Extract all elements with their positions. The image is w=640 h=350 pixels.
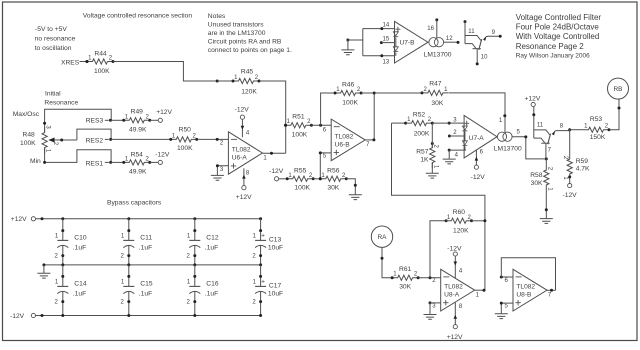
- capacitor C17: [252, 265, 283, 317]
- svg-text:200K: 200K: [414, 130, 430, 137]
- annotation: -5V to +5V no resonance to oscillation: [35, 26, 76, 52]
- svg-text:+12V: +12V: [156, 109, 172, 116]
- svg-text:30K: 30K: [399, 284, 411, 291]
- ground (R56): [349, 195, 362, 200]
- power +12V (buffer A pin 11): [525, 95, 541, 106]
- wire RES3 to R49: [111, 119, 124, 121]
- svg-text:U8-B: U8-B: [516, 292, 532, 299]
- svg-text:R46: R46: [342, 81, 355, 88]
- svg-text:120K: 120K: [453, 227, 469, 234]
- svg-text:R54: R54: [131, 151, 144, 158]
- wire R53 to RB: [609, 99, 619, 130]
- wire bypass middle rail: [44, 264, 261, 266]
- svg-text:Resonance Page 2: Resonance Page 2: [516, 42, 585, 51]
- svg-text:.1uF: .1uF: [205, 291, 218, 298]
- svg-text:Circuit points RA and RB: Circuit points RA and RB: [208, 38, 282, 45]
- transistor buffer A (pins 11 7 8): [532, 107, 569, 159]
- svg-text:RES1: RES1: [86, 161, 104, 168]
- ground (R58): [540, 219, 553, 224]
- wire U8-B pin 6 stub: [501, 276, 513, 278]
- connector RA: [371, 226, 392, 247]
- op-amp U8-B: [505, 269, 552, 311]
- svg-text:Voltage Controlled Filter: Voltage Controlled Filter: [516, 13, 602, 22]
- wire R44 to R45 node: [113, 62, 217, 82]
- svg-text:no resonance: no resonance: [35, 35, 76, 42]
- svg-text:RES2: RES2: [86, 138, 104, 145]
- svg-text:C13: C13: [269, 237, 282, 244]
- svg-text:+: +: [261, 278, 265, 285]
- wire junction to R53: [570, 129, 583, 131]
- wire -12V bottom rail: [36, 315, 261, 317]
- wire U8-A output up to R52: [392, 123, 485, 290]
- resistor R47: [422, 80, 448, 107]
- transistor buffer B (pins 11 10 9): [464, 20, 502, 65]
- wire U8-B output: [547, 289, 556, 291]
- wire U7-A pin 4 to ground: [443, 149, 466, 164]
- svg-text:10: 10: [481, 55, 488, 61]
- svg-text:R48: R48: [23, 132, 36, 139]
- power -12V (R54): [158, 160, 162, 164]
- wire U8-B feedback loop: [501, 258, 555, 291]
- resistor R57: [416, 142, 438, 169]
- svg-text:C14: C14: [74, 281, 87, 288]
- node junction R45/U6-A pin2: [216, 80, 219, 83]
- svg-text:14: 14: [383, 23, 390, 29]
- node RES2: [86, 138, 113, 145]
- power -12V (U8-A pin 4): [447, 246, 462, 257]
- svg-text:+: +: [261, 232, 265, 239]
- wire R57 to ground: [431, 163, 433, 173]
- connector RB: [608, 78, 629, 99]
- svg-text:R55: R55: [294, 167, 307, 174]
- svg-text:R51: R51: [292, 114, 305, 121]
- ground (R57): [426, 173, 439, 178]
- svg-text:30K: 30K: [431, 100, 443, 107]
- svg-text:C10: C10: [74, 235, 87, 242]
- wire U6-B pin 6 feedback up: [321, 93, 336, 125]
- svg-text:R60: R60: [453, 209, 466, 216]
- svg-text:.1uF: .1uF: [73, 245, 86, 252]
- wire RES1 to R54: [111, 161, 124, 163]
- U7-B output current source symbol: [429, 38, 444, 47]
- potentiometer R48: [20, 125, 77, 153]
- svg-text:100K: 100K: [342, 100, 358, 107]
- note text block: [208, 13, 292, 54]
- pin 2 stub U7-A: [448, 130, 464, 137]
- wire pot wiper to RES2: [77, 129, 111, 140]
- wire R55 to R56 junction: [313, 178, 320, 180]
- resistor R54: [122, 151, 151, 175]
- op-amp U7-A LM13700: [462, 115, 497, 157]
- svg-text:With Voltage Controlled: With Voltage Controlled: [516, 32, 600, 41]
- svg-text:12: 12: [446, 36, 453, 42]
- svg-text:TL082: TL082: [335, 133, 354, 140]
- svg-text:.1uF: .1uF: [73, 291, 86, 298]
- svg-text:4.7K: 4.7K: [576, 166, 590, 173]
- capacitor C13: [252, 217, 283, 266]
- wire ground to U7-B pins 14 and 13: [348, 29, 395, 56]
- wire R60 feedback loop: [430, 221, 446, 278]
- power -12V (bypass rail): [10, 313, 36, 320]
- wire U8-A pin 3 to ground: [424, 301, 441, 319]
- wire U8-B pin 5 to ground: [495, 302, 513, 319]
- op-amp U6-A: [220, 132, 267, 174]
- svg-text:LM13700: LM13700: [494, 145, 522, 152]
- svg-text:U6-B: U6-B: [335, 141, 351, 148]
- capacitor C12: [187, 217, 219, 266]
- svg-text:R52: R52: [413, 112, 426, 119]
- svg-text:Voltage controlled resonance s: Voltage controlled resonance section: [83, 13, 193, 20]
- resistor R58: [530, 165, 552, 192]
- svg-text:C15: C15: [140, 281, 153, 288]
- svg-text:Unused transistors: Unused transistors: [208, 21, 264, 28]
- svg-text:-12V: -12V: [269, 168, 284, 175]
- svg-text:49.9K: 49.9K: [129, 168, 147, 175]
- node RES1: [86, 161, 113, 168]
- power +12V (U8-A pin 8): [447, 325, 463, 342]
- svg-text:C12: C12: [206, 235, 219, 242]
- svg-text:10uF: 10uF: [268, 245, 283, 252]
- svg-text:100K: 100K: [94, 68, 110, 75]
- wire -12V to R55: [279, 178, 288, 180]
- svg-text:C11: C11: [140, 235, 152, 242]
- capacitor C14: [55, 265, 87, 317]
- svg-text:connect to points on page 1.: connect to points on page 1.: [208, 47, 292, 54]
- svg-text:RB: RB: [614, 86, 623, 93]
- svg-text:R57: R57: [416, 149, 429, 156]
- power +12V (bypass rail): [11, 216, 36, 223]
- wire R52 row: [392, 122, 406, 124]
- svg-text:R53: R53: [590, 116, 603, 123]
- node junction R60/R61: [429, 276, 432, 279]
- title block: [516, 13, 602, 60]
- U7-A output current source symbol: [497, 132, 512, 141]
- svg-text:13: 13: [383, 60, 390, 66]
- svg-text:Ray Wilson January 2006: Ray Wilson January 2006: [516, 52, 590, 59]
- svg-text:-12V: -12V: [235, 107, 250, 114]
- wire -12V to U8-A pin 4: [454, 256, 463, 278]
- svg-text:120K: 120K: [241, 88, 257, 95]
- svg-text:-12V: -12V: [471, 174, 486, 181]
- svg-text:10uF: 10uF: [268, 291, 283, 298]
- wire pot top to RES3: [45, 109, 112, 132]
- pin 12 output stub: [444, 36, 460, 44]
- svg-text:Initial: Initial: [45, 91, 61, 98]
- svg-text:R49: R49: [131, 108, 144, 115]
- resistor R50: [169, 127, 198, 152]
- svg-text:U7-A: U7-A: [469, 135, 485, 142]
- op-amp U8-A: [432, 269, 479, 311]
- svg-text:R58: R58: [530, 172, 543, 179]
- power -12V (U6-A pin 4): [235, 107, 250, 120]
- resistor R53: [583, 116, 609, 141]
- power -12V (R55): [269, 168, 284, 181]
- wire U7-A output pin 5 to buffer base: [512, 130, 548, 161]
- svg-text:XRES: XRES: [61, 59, 80, 66]
- resistor R46: [334, 81, 363, 106]
- svg-text:Max/Osc: Max/Osc: [13, 111, 40, 118]
- power +12V (U6-A pin 8): [236, 186, 252, 201]
- svg-text:-12V: -12V: [155, 151, 170, 158]
- svg-text:.1uF: .1uF: [139, 245, 152, 252]
- wire -12V to U6-A pin 4: [241, 119, 250, 137]
- svg-text:-12V: -12V: [563, 192, 578, 199]
- wire R52 to U7-A pin 3: [449, 122, 464, 124]
- wire R56 to ground: [346, 179, 355, 195]
- wire R58 to ground: [545, 191, 547, 219]
- svg-text:TL082: TL082: [444, 284, 463, 291]
- resistor R49: [122, 108, 151, 133]
- svg-text:.1uF: .1uF: [139, 291, 152, 298]
- wire +12V to U6-A pin 8: [242, 168, 250, 185]
- resistor R60: [446, 209, 472, 235]
- svg-text:Four Pole 24dB/Octave: Four Pole 24dB/Octave: [516, 23, 600, 32]
- pin 16 stub: [427, 18, 438, 38]
- svg-text:Resonance: Resonance: [44, 100, 78, 107]
- resistor R44: [86, 50, 115, 75]
- op-amp U7-B LM13700: [393, 21, 428, 63]
- svg-text:R45: R45: [241, 69, 254, 76]
- wire R52 to pin 3 node: [432, 122, 449, 124]
- resistor R55: [286, 167, 315, 191]
- wire R45 to U6-A output node: [259, 81, 286, 153]
- capacitor C10: [55, 217, 87, 266]
- wire U7-A pin 6 to -12V: [471, 150, 486, 181]
- resistor R56: [319, 167, 348, 191]
- node junction R46/R47: [373, 92, 376, 95]
- power +12V (R49): [158, 118, 162, 122]
- wire R51 to U6-B pin 6: [311, 124, 331, 126]
- svg-text:U7-B: U7-B: [400, 40, 416, 47]
- wire U8-A output: [475, 289, 485, 291]
- svg-text:C16: C16: [206, 281, 219, 288]
- svg-text:TL082: TL082: [516, 284, 535, 291]
- resistor R61: [391, 266, 420, 290]
- svg-text:11: 11: [537, 123, 544, 129]
- wire R50 to U6-A pin 2: [197, 138, 228, 140]
- svg-text:Min: Min: [30, 158, 41, 165]
- resistor R45: [232, 69, 261, 96]
- capacitor C16: [187, 265, 219, 317]
- wire U6-B pin 5 stub: [320, 153, 331, 179]
- svg-text:to oscillation: to oscillation: [35, 45, 72, 52]
- svg-text:+12V: +12V: [236, 194, 252, 201]
- svg-text:C17: C17: [269, 283, 282, 290]
- node RES3: [86, 118, 112, 125]
- capacitor C11: [121, 217, 153, 266]
- svg-text:100K: 100K: [177, 145, 193, 152]
- wire junction to R59: [569, 130, 571, 154]
- svg-text:+12V: +12V: [525, 95, 541, 102]
- svg-text:RES3: RES3: [86, 118, 104, 125]
- wire R61 to U8-A pin 2: [418, 277, 440, 279]
- wire U6-A output: [262, 152, 285, 154]
- svg-text:LM13700: LM13700: [424, 52, 452, 59]
- svg-text:100K: 100K: [292, 131, 308, 138]
- svg-text:R50: R50: [179, 127, 192, 134]
- svg-text:R56: R56: [327, 167, 340, 174]
- svg-text:49.9K: 49.9K: [129, 126, 147, 133]
- wire R58 top: [545, 159, 547, 165]
- ground (U6-A pin 3): [211, 175, 224, 180]
- node junction R45/R51/output: [284, 124, 287, 127]
- svg-text:R61: R61: [399, 266, 412, 273]
- svg-text:-12V: -12V: [10, 313, 25, 320]
- svg-text:-5V to +5V: -5V to +5V: [35, 26, 67, 33]
- op-amp U6-B: [323, 119, 370, 161]
- svg-text:30K: 30K: [327, 185, 339, 192]
- svg-text:Notes: Notes: [208, 13, 226, 20]
- resistor R52: [406, 112, 432, 138]
- svg-text:11: 11: [468, 29, 475, 35]
- svg-text:100K: 100K: [294, 185, 310, 192]
- svg-text:1K: 1K: [420, 156, 429, 163]
- svg-text:U6-A: U6-A: [232, 154, 248, 161]
- wire RA to R61: [382, 247, 392, 277]
- wire R46 to output vertical: [361, 93, 374, 140]
- svg-text:+12V: +12V: [11, 216, 27, 223]
- wire U6-B output: [365, 139, 374, 141]
- label Initial Resonance: [44, 91, 78, 107]
- wire RES2 to R50: [111, 138, 171, 140]
- svg-text:R44: R44: [94, 50, 107, 57]
- svg-text:R47: R47: [429, 80, 442, 87]
- wire R60 to output vertical: [472, 220, 485, 222]
- svg-text:15: 15: [383, 36, 390, 42]
- svg-text:U8-A: U8-A: [444, 292, 460, 299]
- node junction 8/R53/R59: [568, 128, 571, 131]
- svg-text:Bypass capacitors: Bypass capacitors: [107, 200, 162, 207]
- wire R47 to U7-A pin 1: [449, 93, 505, 132]
- ground (U7-B inputs): [341, 39, 354, 55]
- resistor R59: [562, 154, 590, 181]
- svg-text:16: 16: [427, 26, 434, 32]
- wire pot bottom to RES1: [45, 148, 112, 163]
- wire R54 to -12V: [150, 161, 158, 163]
- resistor R51: [284, 114, 313, 139]
- capacitor C15: [121, 265, 153, 317]
- wire R49 to +12V: [150, 119, 158, 121]
- svg-text:.1uF: .1uF: [205, 245, 218, 252]
- pin 15 stub: [380, 36, 395, 44]
- wire +12V top rail: [36, 218, 261, 220]
- wire U6-A pin 3 to ground: [217, 166, 228, 175]
- wire +12V to U8-A pin 8: [454, 302, 463, 324]
- wire R52 node down to R57: [431, 123, 433, 148]
- wire R46 node to R47: [374, 92, 422, 94]
- wire R59 to -12V: [563, 175, 578, 198]
- svg-text:RA: RA: [378, 234, 388, 241]
- svg-text:R59: R59: [576, 158, 589, 165]
- svg-text:+12V: +12V: [447, 334, 463, 341]
- svg-text:30K: 30K: [531, 180, 543, 187]
- ground (bypass middle rail): [37, 263, 50, 278]
- svg-text:are in the LM13700: are in the LM13700: [208, 30, 266, 37]
- svg-text:100K: 100K: [20, 140, 36, 147]
- svg-text:TL082: TL082: [232, 146, 251, 153]
- svg-text:150K: 150K: [590, 134, 606, 141]
